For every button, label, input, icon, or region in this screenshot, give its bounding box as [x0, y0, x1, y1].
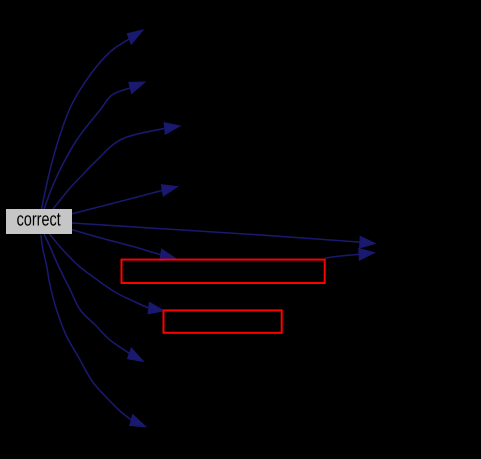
- edge B: [44, 82, 145, 209]
- node correct (current node, gray): [6, 209, 72, 234]
- edge a4: [41, 235, 146, 427]
- edge D: [72, 185, 178, 214]
- node box1 (red-bordered callee): [122, 260, 325, 283]
- edge box1e: [72, 230, 176, 261]
- edge a3: [44, 234, 144, 362]
- edge A: [42, 30, 144, 209]
- edge C: [53, 123, 180, 209]
- edge box2e: [50, 234, 165, 314]
- node box2 (red-bordered callee): [164, 310, 282, 332]
- edge far1: [72, 223, 375, 248]
- edge far2: [325, 249, 375, 261]
